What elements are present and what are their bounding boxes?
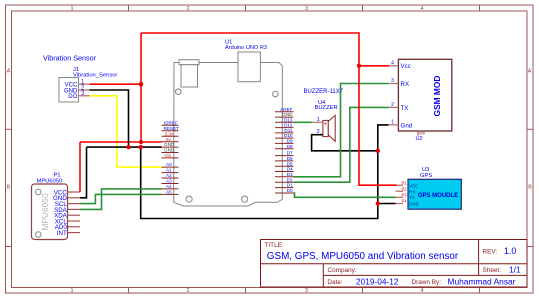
svg-text:B: B [528, 185, 532, 191]
svg-text:A5: A5 [166, 190, 172, 195]
GPS pin stubs [396, 185, 404, 203]
svg-text:GND: GND [164, 142, 175, 147]
GPS pin numbers [402, 181, 408, 204]
svg-text:REV:: REV: [483, 249, 498, 256]
svg-text:4: 4 [421, 288, 424, 294]
U1 right pin stubs [275, 112, 294, 193]
title block [261, 240, 528, 288]
svg-text:3: 3 [305, 6, 308, 12]
U1 right pin names [280, 107, 293, 193]
svg-text:3.3v: 3.3v [165, 131, 174, 136]
J1 pin names [64, 83, 78, 101]
svg-text:D6: D6 [287, 156, 293, 161]
connector J1 body [59, 78, 79, 103]
buzzer horn [328, 115, 335, 141]
svg-text:GSM, GPS, MPU6050 and Vibratio: GSM, GPS, MPU6050 and Vibration sensor [267, 251, 459, 262]
svg-text:VCC: VCC [409, 183, 418, 188]
svg-text:GPS MOUDLE: GPS MOUDLE [418, 193, 458, 199]
svg-text:2: 2 [391, 102, 394, 108]
wire yellow J1 DO to A0 [90, 96, 162, 167]
wire black J1 GND [90, 90, 129, 147]
GSM pin numbers [391, 60, 394, 125]
svg-text:3: 3 [305, 288, 308, 294]
junction dot J1 VCC branch [139, 82, 143, 86]
svg-text:GND: GND [409, 201, 418, 206]
svg-text:D10: D10 [284, 133, 293, 138]
J1 pin stubs [79, 84, 90, 96]
svg-text:2019-04-12: 2019-04-12 [356, 277, 399, 287]
svg-text:Arduino UNO R3: Arduino UNO R3 [225, 45, 267, 51]
svg-text:D3: D3 [287, 172, 293, 177]
junction dot GSM Vcc branch [357, 64, 361, 68]
wire black MPU GND drop [80, 147, 87, 198]
svg-text:DO: DO [68, 94, 77, 100]
svg-text:Vibration Sensor: Vibration Sensor [43, 53, 97, 62]
wire green D0 to GPS TX [294, 193, 396, 197]
svg-text:D2: D2 [287, 177, 293, 182]
svg-text:D9: D9 [287, 139, 293, 144]
svg-text:2: 2 [187, 288, 190, 294]
U1 left pin stubs [162, 125, 179, 194]
svg-text:1: 1 [71, 288, 74, 294]
svg-text:3: 3 [391, 78, 394, 84]
svg-text:D13: D13 [284, 117, 293, 122]
svg-text:TX: TX [401, 105, 409, 112]
wire red vertical J1 branch [140, 33, 142, 142]
wire red MPU VCC drop [79, 142, 81, 192]
svg-text:BUZZER: BUZZER [315, 105, 338, 111]
svg-text:IOREF: IOREF [164, 120, 178, 125]
wire green D3 to GSM RX [294, 84, 389, 177]
svg-text:1: 1 [71, 6, 74, 12]
svg-text:1: 1 [391, 120, 394, 126]
svg-text:A0: A0 [166, 162, 172, 167]
U1 usb connector [238, 52, 260, 82]
svg-text:RESET: RESET [164, 126, 180, 131]
svg-text:RX: RX [401, 81, 410, 88]
svg-text:D12: D12 [284, 123, 293, 128]
P1 hole bottom [36, 232, 42, 238]
U1 hole top-left [176, 89, 182, 95]
GPS body [408, 179, 461, 209]
U1 hole bottom-right [242, 196, 248, 202]
svg-text:D8: D8 [287, 144, 293, 149]
module P1 body [32, 184, 68, 240]
svg-text:P1: P1 [402, 181, 408, 186]
GSM pin stubs [389, 66, 399, 125]
svg-text:U2: U2 [416, 136, 423, 142]
buzzer body rect [323, 120, 328, 136]
svg-text:MPU6050: MPU6050 [40, 193, 50, 231]
svg-text:Gnd: Gnd [401, 122, 413, 129]
wire green D13 to buzzer [294, 121, 312, 123]
svg-text:A2: A2 [166, 173, 172, 178]
svg-text:A: A [528, 69, 532, 75]
junction dot 5V row [139, 140, 143, 144]
svg-text:5v: 5v [166, 137, 172, 142]
U1 power jack flange [179, 60, 199, 65]
svg-text:INT: INT [57, 230, 67, 237]
svg-text:1.0: 1.0 [504, 246, 516, 256]
GSM pin names [401, 63, 413, 129]
svg-text:D5: D5 [287, 161, 293, 166]
svg-text:P3: P3 [402, 193, 408, 198]
svg-text:4: 4 [421, 6, 424, 12]
wire green MPU SDA to A4 [80, 189, 162, 210]
buzzer pin stubs [312, 122, 323, 134]
svg-text:B: B [7, 185, 11, 191]
wire red J1 VCC to junction [90, 83, 142, 85]
P1 pin names [53, 189, 68, 237]
svg-text:2: 2 [187, 6, 190, 12]
junction dot buzzer GND join [376, 149, 380, 153]
svg-text:D4: D4 [287, 167, 293, 172]
buzzer pin numbers [317, 117, 320, 135]
wire green D2 to GSM TX [294, 107, 389, 182]
svg-text:4: 4 [391, 60, 394, 66]
junction dot J1 GND join [126, 145, 130, 149]
svg-text:RX: RX [409, 189, 415, 194]
U1 left pin names [164, 120, 180, 194]
wire red top bus [141, 33, 397, 185]
svg-text:A1: A1 [166, 168, 172, 173]
svg-text:BUZZER-11X7: BUZZER-11X7 [304, 89, 344, 95]
svg-text:Sheet:: Sheet: [483, 267, 502, 274]
wire black GND row [87, 146, 162, 148]
wire red GSM Vcc branch [359, 65, 389, 67]
U1 power jack body [181, 65, 198, 87]
GPS pin names [409, 183, 418, 206]
svg-text:1: 1 [317, 117, 320, 123]
svg-text:Vcc: Vcc [401, 63, 411, 70]
svg-text:D7: D7 [287, 151, 293, 156]
wire black buzzer pin2 [312, 135, 378, 151]
U1 hole top-right [273, 91, 279, 97]
U1 hole bottom-left [186, 196, 192, 202]
J1 pin numbers [81, 80, 85, 98]
svg-text:A4: A4 [166, 184, 172, 189]
P1 pin stubs [68, 192, 81, 233]
wire red 5V row [80, 141, 162, 143]
svg-text:P4: P4 [402, 199, 408, 204]
svg-text:P2: P2 [402, 187, 408, 192]
svg-text:AREF: AREF [280, 107, 292, 112]
svg-text:Muhammad Ansar: Muhammad Ansar [448, 277, 516, 287]
svg-text:+: + [324, 122, 328, 128]
svg-text:A: A [7, 69, 11, 75]
svg-text:Drawn By:: Drawn By: [412, 279, 442, 286]
wire green MPU SCL to A5 [80, 194, 162, 203]
wire black GPS GND branch [378, 203, 396, 205]
junction dot GND bus [139, 145, 143, 149]
svg-text:TX: TX [409, 195, 415, 200]
svg-text:Company:: Company: [328, 267, 357, 274]
svg-text:Vibration_Sensor: Vibration_Sensor [73, 73, 117, 79]
svg-text:D1: D1 [287, 183, 293, 188]
junction dot GPS GND join [376, 201, 380, 205]
svg-text:GND: GND [164, 148, 175, 153]
svg-text:TITLE:: TITLE: [265, 242, 284, 249]
svg-text:A3: A3 [166, 179, 172, 184]
svg-text:GPS: GPS [420, 173, 432, 179]
svg-text:Date:: Date: [327, 279, 342, 286]
svg-text:Vin: Vin [165, 153, 172, 158]
U1 board outline [174, 63, 283, 207]
P1 hole top [36, 189, 42, 195]
wire black GND bus [141, 125, 389, 219]
svg-text:GSM MOD: GSM MOD [432, 76, 442, 117]
svg-text:D0: D0 [287, 188, 293, 193]
svg-text:gsm: gsm [417, 130, 426, 135]
GSM body [398, 59, 451, 131]
svg-text:1/1: 1/1 [509, 265, 521, 275]
